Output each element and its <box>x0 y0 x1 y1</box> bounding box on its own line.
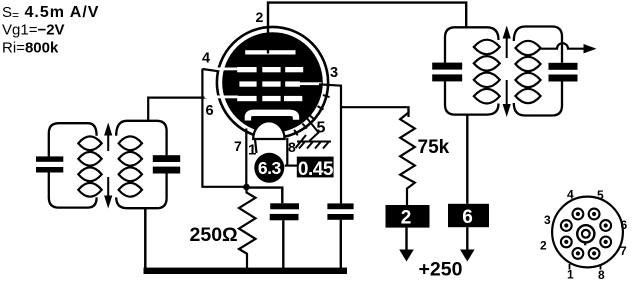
svg-text:5: 5 <box>317 120 326 137</box>
socket pin 4 <box>573 209 584 220</box>
heater link wire <box>285 165 297 167</box>
pin 3 lead wire <box>319 84 409 203</box>
capacitor C6 plates <box>549 63 578 82</box>
socket pin 2 <box>561 237 572 248</box>
svg-text:2: 2 <box>401 208 412 229</box>
svg-text:8: 8 <box>288 139 296 155</box>
svg-text:4: 4 <box>202 50 210 66</box>
svg-text:Ri=800k: Ri=800k <box>2 40 59 57</box>
pin 2 lead and wire to output transformer <box>268 3 466 54</box>
svg-text:4: 4 <box>567 188 574 202</box>
supply box 2 <box>386 205 430 229</box>
resistor 250 ohm <box>239 187 256 269</box>
svg-text:5: 5 <box>597 188 604 202</box>
socket pin 8 <box>589 248 600 259</box>
svg-text:8: 8 <box>598 268 605 282</box>
socket pin 6 <box>600 220 611 231</box>
wire tank top to grid bracket <box>148 98 206 121</box>
heater current box 0.45 <box>297 157 334 180</box>
coil L3 loops <box>474 40 500 104</box>
socket center spigot <box>577 225 594 245</box>
pin 1 lead <box>255 139 257 153</box>
grid row 1 dashes (white) <box>205 67 304 72</box>
ground bus <box>144 268 348 274</box>
lower anode bracket (white) <box>248 113 296 121</box>
svg-text:1: 1 <box>248 142 256 159</box>
svg-text:2: 2 <box>540 238 547 252</box>
svg-text:7: 7 <box>620 244 627 258</box>
cathode dome <box>253 121 284 139</box>
grid bracket left (pins 4/6) <box>202 69 246 187</box>
wire tank bottom to ground bus <box>144 208 147 270</box>
metallization ticks on envelope lower right <box>294 95 329 135</box>
C3 lower lead <box>282 220 284 268</box>
socket pin 7 <box>600 237 611 248</box>
svg-text:6.3: 6.3 <box>258 158 282 178</box>
svg-text:1: 1 <box>567 268 574 282</box>
socket pin 5 <box>589 209 600 220</box>
cathode bypass capacitor C3 <box>270 203 299 220</box>
resistor 75k <box>400 107 415 205</box>
capacitor C5 plates <box>432 63 462 82</box>
shield hatch symbol at pin 8 <box>296 135 332 149</box>
heater circle 6.3 <box>254 153 284 183</box>
pin 7 lead <box>245 129 247 188</box>
coil L1 loops (left tank) <box>78 136 101 196</box>
coil L2 loops (right tank) <box>119 136 142 196</box>
output tap wire with hop <box>541 43 584 49</box>
left tank outline T2a <box>445 27 499 114</box>
pin 8 lead <box>286 138 288 166</box>
svg-text:6: 6 <box>621 218 628 232</box>
pin 5 lead <box>306 117 319 141</box>
svg-text:7: 7 <box>234 138 242 154</box>
socket label 8 tick <box>600 264 602 270</box>
right tank outline T2b <box>514 27 562 116</box>
right tank outline T1b <box>116 121 166 208</box>
socket label 1 tick <box>569 264 571 270</box>
svg-text:6: 6 <box>462 207 473 228</box>
output arrowhead <box>584 44 597 53</box>
left tank outline T1a <box>49 123 97 207</box>
text S= 4.5m A/V <box>2 4 99 22</box>
tuning double arrow (left transformer) <box>104 123 112 209</box>
text Ri=800k <box>2 40 59 57</box>
socket circle <box>552 197 623 268</box>
arrow below box 6 <box>460 227 475 261</box>
supply box 6 <box>448 204 489 228</box>
coil L4 loops <box>515 41 540 103</box>
capacitor C1 plates (left tank) <box>36 156 63 172</box>
grid row 3 dashes (white) <box>205 96 303 102</box>
cathode junction node <box>243 184 250 191</box>
svg-text:3: 3 <box>544 213 551 227</box>
svg-text:250Ω: 250Ω <box>190 224 238 246</box>
socket pin 1 <box>573 248 584 259</box>
capacitor C2 plates (right tank) <box>153 155 180 173</box>
grid row 2 dashes (white) <box>239 81 321 86</box>
svg-text:6: 6 <box>206 103 214 119</box>
socket pin 3 <box>561 220 572 231</box>
svg-text:Vg1=−2V: Vg1=−2V <box>2 22 65 39</box>
svg-text:75k: 75k <box>418 137 450 158</box>
text Vg1=-2V <box>2 22 65 39</box>
svg-text:0.45: 0.45 <box>298 159 334 180</box>
screen bypass capacitor C4 <box>327 203 353 219</box>
tuning double arrow (right transformer) <box>503 26 511 118</box>
svg-text:2: 2 <box>256 9 264 25</box>
wire output transformer bottom to box 6 <box>466 115 468 204</box>
svg-text:3: 3 <box>330 65 338 81</box>
tube envelope circle <box>217 27 328 138</box>
tube internal black disc <box>222 32 323 133</box>
C4 lower lead <box>340 220 342 269</box>
wire junction to cathode capacitor <box>247 188 283 204</box>
arrow below box 2 <box>399 228 414 262</box>
svg-text:+250: +250 <box>419 259 463 281</box>
anode bar (white) <box>245 50 295 54</box>
